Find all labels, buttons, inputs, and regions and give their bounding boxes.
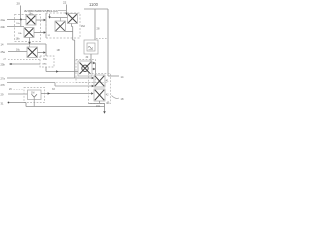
mixer M7: [94, 89, 105, 101]
dashed xtal group box: [24, 88, 45, 103]
svg-text:18a: 18a: [16, 23, 20, 25]
wire long vertical: [74, 40, 76, 78]
wire vertical LO feed: [45, 44, 47, 56]
wire output combine: [89, 103, 105, 105]
svg-text:41: 41: [106, 80, 109, 83]
junction dot: [20, 19, 22, 21]
dashed group box 26: [46, 13, 80, 38]
svg-text:16f: 16f: [57, 49, 61, 52]
arrow into group: [49, 14, 51, 17]
dashed chopper group box: [76, 60, 96, 83]
svg-text:161: 161: [96, 105, 101, 108]
wire M3 output: [38, 52, 45, 54]
dashed oscillator box: [40, 56, 54, 67]
svg-text:cf: cf: [4, 58, 6, 61]
svg-text:33: 33: [52, 88, 55, 91]
dashed stub: [96, 38, 108, 40]
svg-text:16b: 16b: [16, 38, 21, 41]
svg-text:osc: osc: [43, 63, 48, 66]
wire drop to mixer M4: [60, 18, 62, 22]
leader line to stub: [58, 10, 67, 12]
wire xtal output: [41, 93, 92, 95]
wire M1 output: [36, 19, 44, 21]
wire M4 output: [66, 31, 73, 33]
mixer M1: [26, 15, 36, 25]
wire M7 bottom stub: [99, 101, 101, 104]
svg-text:24b: 24b: [1, 25, 6, 29]
wire bottom long: [26, 103, 105, 107]
mixer M4: [55, 21, 66, 32]
pll input line: [94, 9, 96, 40]
top rail: [84, 8, 108, 10]
mixer M3: [27, 47, 38, 58]
dashed control rail: [56, 82, 108, 84]
wire chopper output: [92, 68, 94, 70]
pll outer box: [84, 40, 98, 54]
mixer M2: [24, 28, 34, 38]
svg-text:18b: 18b: [18, 33, 22, 35]
wire osc output: [46, 67, 78, 72]
svg-text:30: 30: [86, 56, 89, 59]
antenna symbol: [32, 94, 38, 97]
wire M2 output: [34, 32, 44, 34]
wire to mixer M5: [50, 17, 68, 19]
leader curve 18: [112, 96, 120, 99]
svg-text:1100: 1100: [89, 2, 99, 7]
svg-text:25a: 25a: [1, 50, 6, 54]
wire vertical feed to mixer M6: [95, 63, 97, 75]
wire vertical between inputs: [20, 20, 22, 27]
right rail: [108, 9, 119, 76]
dashed output mixers group: [89, 74, 111, 104]
svg-text:27a: 27a: [1, 77, 6, 81]
pll inner box: [87, 43, 95, 51]
svg-text:14: 14: [1, 43, 4, 47]
svg-text:40: 40: [107, 101, 110, 104]
mixer M5: [68, 14, 78, 24]
svg-text:25b: 25b: [1, 63, 6, 67]
wire pll output: [91, 54, 94, 63]
svg-text:29: 29: [1, 93, 4, 97]
svg-text:24a: 24a: [1, 18, 6, 22]
svg-text:16e: 16e: [43, 58, 48, 61]
svg-text:28: 28: [97, 27, 100, 31]
xtal box: [28, 90, 42, 107]
svg-text:20: 20: [17, 2, 21, 6]
wire group left edge: [45, 13, 47, 38]
svg-text:14: 14: [121, 75, 124, 79]
wire input stub top-left: [20, 6, 22, 20]
wire output down arrow: [104, 104, 106, 112]
svg-text:22: 22: [63, 1, 67, 5]
svg-text:31: 31: [1, 102, 4, 106]
chopper box: [78, 61, 92, 76]
dashed group box 16: [15, 15, 41, 42]
svg-text:27b: 27b: [1, 83, 6, 87]
svg-text:26: 26: [9, 88, 12, 91]
svg-text:42: 42: [106, 94, 109, 97]
mixer M6: [94, 75, 105, 87]
wire M5 down: [72, 24, 75, 41]
svg-text:1M: 1M: [31, 92, 34, 95]
svg-text:18: 18: [121, 97, 124, 101]
svg-text:32: 32: [48, 35, 51, 37]
wire M2 down to mixer M3: [29, 38, 31, 43]
svg-text:16d: 16d: [81, 25, 86, 28]
